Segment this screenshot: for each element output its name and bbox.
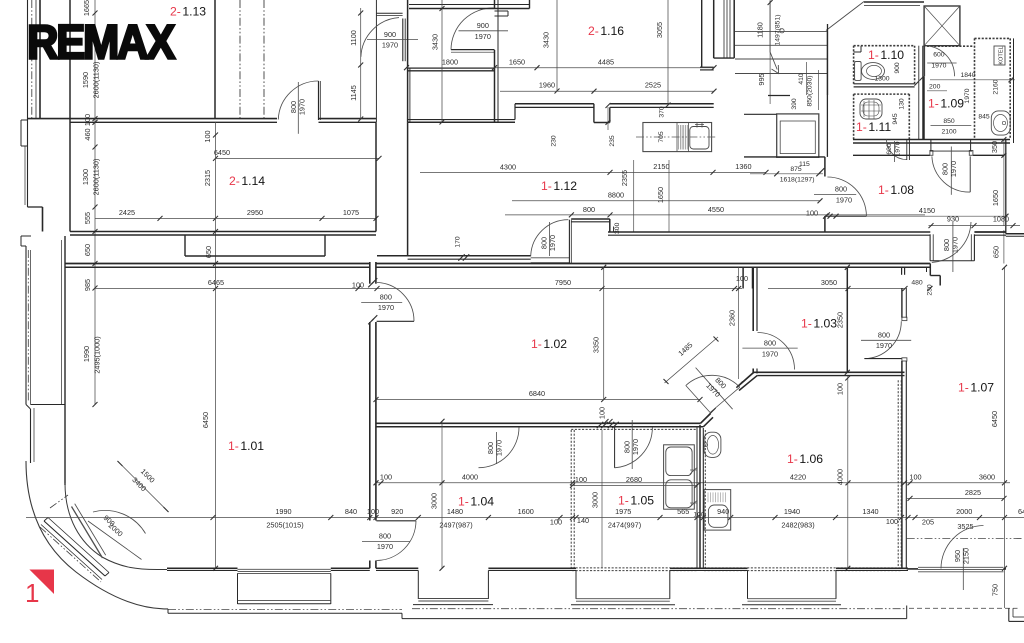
wall: diagonal 1.02/1.06: [701, 372, 758, 427]
svg-text:4150: 4150: [919, 206, 935, 215]
svg-text:2474(997): 2474(997): [608, 521, 641, 530]
svg-text:1: 1: [25, 578, 39, 608]
svg-text:6450: 6450: [201, 412, 210, 428]
label room 2-1.13: [170, 5, 206, 19]
svg-text:100: 100: [352, 281, 364, 290]
svg-text:390: 390: [791, 98, 798, 110]
wall: south main second line: [167, 570, 908, 572]
wall: 2-1.14 west: [69, 0, 71, 232]
dim labels x95 mid: [83, 114, 92, 141]
door D14 1.03 entry: [742, 333, 797, 370]
svg-text:6450: 6450: [214, 148, 230, 157]
axis dash-dot closet a: [239, 0, 241, 119]
svg-text:1650: 1650: [656, 187, 665, 203]
dim 2825: [906, 488, 1007, 501]
wall: 1.03 west: [753, 267, 757, 373]
svg-text:2497(987): 2497(987): [439, 521, 472, 530]
svg-text:2-1.13: 2-1.13: [170, 5, 206, 19]
door D16 1.04 ne: [479, 427, 520, 468]
dim line y482.8: [374, 480, 1011, 485]
svg-text:1665: 1665: [82, 0, 91, 16]
dims 3050 480 230: [768, 278, 934, 296]
wall: H3 band (top of 1.01/1.02/1.03): [65, 264, 930, 268]
svg-text:650: 650: [992, 246, 1001, 258]
wall: left jog mid: [21, 207, 43, 405]
svg-text:1970: 1970: [949, 161, 958, 177]
dim 3430 corridor: [431, 34, 440, 50]
bay axis dashdot: [40, 495, 101, 582]
svg-text:800: 800: [878, 330, 890, 339]
svg-text:3055: 3055: [655, 22, 664, 38]
wall dashed: 1.05 border: [571, 427, 697, 571]
dim line 2-1.16 verticals: [542, 0, 671, 108]
svg-text:460: 460: [83, 128, 92, 140]
elevator box: [744, 114, 819, 157]
dim 1800 1650 4485: [442, 57, 614, 66]
svg-text:1970: 1970: [298, 99, 307, 115]
svg-text:2100: 2100: [941, 129, 956, 136]
terrace dashed right: [909, 607, 1018, 609]
svg-text:6840: 6840: [529, 389, 545, 398]
svg-text:900: 900: [384, 30, 396, 39]
toilet 1.10: [855, 62, 885, 81]
door D8 1.08 ne: [930, 140, 972, 195]
svg-text:1-1.11: 1-1.11: [856, 120, 891, 134]
svg-text:1970: 1970: [964, 88, 971, 103]
bay door leaf: [72, 504, 106, 558]
wall: corridor y70: [408, 68, 495, 71]
wall: chimney x713-734: [702, 0, 735, 67]
svg-text:4550: 4550: [708, 205, 724, 214]
wall: D1 closet wall x376: [375, 0, 377, 122]
stair side wall: [826, 32, 828, 157]
bay door arc: [88, 510, 146, 559]
svg-text:705: 705: [658, 131, 665, 143]
wall: corridor x406: [408, 0, 410, 122]
dim line y485.4 (2680): [570, 475, 700, 488]
svg-text:140: 140: [577, 516, 589, 525]
svg-text:1-1.10: 1-1.10: [868, 48, 904, 62]
dim 3000b vert: [591, 430, 603, 568]
svg-text:7950: 7950: [555, 278, 571, 287]
wall: partition 1.10/1.11: [854, 84, 915, 94]
svg-text:100: 100: [83, 114, 92, 126]
wall: 2-1.16 south band A: [515, 104, 594, 120]
dim labels x95 low: [81, 159, 101, 291]
dims row y514 c: [781, 507, 1024, 531]
wall: 1.05/1.06 divider: [700, 425, 703, 568]
door D18 1.07 south: [941, 526, 984, 591]
wall dashed: 1.05 top inner: [0, 0, 1, 1]
svg-text:1-1.06: 1-1.06: [787, 452, 823, 466]
red numeral 1: [25, 578, 39, 608]
wall: 2-1.14 east: [375, 122, 377, 231]
dims 6465 100 7950 100b: [208, 274, 748, 290]
svg-text:800: 800: [380, 293, 392, 302]
svg-text:1180: 1180: [756, 22, 765, 38]
svg-text:2360: 2360: [727, 310, 736, 326]
svg-text:1-1.01: 1-1.01: [228, 439, 264, 453]
svg-text:2150: 2150: [961, 548, 970, 564]
wall dashed: room 1-1.10 border: [854, 46, 915, 84]
svg-text:230: 230: [927, 284, 934, 296]
svg-text:565: 565: [677, 507, 689, 516]
svg-text:1-1.04: 1-1.04: [458, 495, 494, 509]
svg-text:875: 875: [790, 166, 802, 173]
svg-text:3350: 3350: [592, 337, 601, 353]
wall dashed: room 1-1.09 border: [924, 38, 974, 139]
terrace outer edge right: [402, 606, 907, 619]
svg-text:650: 650: [83, 244, 92, 256]
svg-text:2825: 2825: [965, 488, 981, 497]
svg-text:2150: 2150: [653, 162, 669, 171]
svg-text:350: 350: [990, 141, 999, 153]
dim line y218.4: [95, 216, 379, 221]
dim 900 1300 in 1.10: [874, 62, 910, 82]
toilet 1.11 grid: [860, 99, 882, 119]
svg-text:555: 555: [83, 212, 92, 224]
label room 1-1.03: [801, 317, 837, 331]
diagonal dim 1485: [664, 337, 719, 385]
svg-text:1650: 1650: [991, 190, 1000, 206]
svg-text:900: 900: [894, 62, 901, 74]
svg-text:100: 100: [550, 518, 562, 527]
svg-text:850(2030): 850(2030): [807, 76, 814, 107]
kitchen axis: [636, 136, 717, 138]
svg-text:1360: 1360: [735, 162, 751, 171]
wall: H3 step right: [902, 264, 941, 286]
wall: hall south band y231 main: [375, 231, 377, 233]
door D4 1.07 entry: [861, 317, 911, 361]
svg-text:1497(851): 1497(851): [775, 15, 782, 46]
svg-text:1970: 1970: [894, 141, 901, 156]
door D10 1.12-1.01: [361, 278, 414, 324]
dim 1497(851) stairs: [770, 0, 781, 104]
svg-text:REMAX: REMAX: [27, 17, 175, 70]
svg-text:4000: 4000: [836, 469, 845, 485]
svg-text:750: 750: [991, 584, 1000, 596]
dim line vertical x442: [440, 0, 445, 125]
svg-text:170: 170: [455, 236, 462, 248]
dim 900/1970 door D1: [367, 30, 418, 50]
wall: protrusion below 2-1.14: [185, 235, 325, 256]
axis dash-dot window left: [27, 250, 29, 402]
wall: return y255.8: [377, 236, 531, 261]
wall: H4 band: [376, 423, 703, 427]
svg-text:1960: 1960: [539, 81, 555, 90]
svg-text:1970: 1970: [631, 439, 640, 455]
label room 1-1.06: [787, 452, 823, 466]
svg-text:100: 100: [806, 209, 818, 218]
svg-text:410: 410: [798, 73, 805, 85]
svg-text:1970: 1970: [475, 32, 491, 41]
terrace outer edge left: [168, 609, 402, 619]
dims row y514 b: [518, 507, 730, 529]
washbasin 1.06: [704, 432, 721, 457]
svg-text:4300: 4300: [500, 163, 516, 172]
wall: right outer: [1006, 139, 1024, 236]
svg-text:6465: 6465: [208, 278, 224, 287]
wall: stair landing south: [768, 24, 828, 96]
door D3 corridor-to-2-1.14: [278, 81, 320, 134]
dim line y91: [500, 81, 717, 94]
dims row y514: [266, 507, 472, 529]
svg-text:2160: 2160: [993, 79, 1000, 94]
svg-text:2315: 2315: [203, 170, 212, 186]
corner walls bottom right: [1009, 608, 1024, 621]
dim 930 1080 row: [929, 215, 1021, 229]
svg-text:1970: 1970: [876, 341, 892, 350]
label room 1-1.01: [228, 439, 264, 453]
svg-text:100: 100: [380, 473, 392, 482]
svg-text:1-1.12: 1-1.12: [541, 179, 577, 193]
wall: wc block south: [853, 140, 1010, 144]
svg-text:1480: 1480: [447, 507, 463, 516]
svg-text:1970: 1970: [495, 440, 504, 456]
stair treads: [735, 32, 827, 74]
svg-text:1970: 1970: [836, 195, 852, 204]
label room 1-1.04: [458, 495, 494, 509]
dims in 1.09: [927, 72, 1015, 136]
dim line vertical x95: [93, 0, 98, 291]
svg-text:1340: 1340: [862, 507, 878, 516]
stair tick: [768, 0, 773, 5]
svg-text:1840: 1840: [960, 72, 975, 79]
door D9 1.08 south: [930, 222, 974, 272]
svg-text:2525: 2525: [645, 81, 661, 90]
svg-text:370: 370: [659, 106, 666, 118]
bathtub KOTEL: [991, 111, 1010, 135]
shaft box: [924, 6, 960, 46]
svg-text:1970: 1970: [378, 303, 394, 312]
svg-text:100: 100: [736, 274, 748, 283]
svg-text:3430: 3430: [542, 32, 551, 48]
axis dash-dot closet b: [263, 0, 265, 119]
svg-text:1618(1297): 1618(1297): [780, 177, 815, 184]
door D11 threshold: [531, 258, 570, 263]
axis dash-dot left wall: [31, 0, 33, 118]
dim 1650 650 right: [991, 137, 1006, 264]
dim 2355: [620, 160, 634, 232]
dim 3000a vert: [430, 419, 445, 571]
wall: corridor south y122 east part: [408, 120, 515, 123]
svg-text:2495(1000): 2495(1000): [93, 336, 102, 373]
window 1.07 south: [918, 567, 1004, 572]
dim line y67.7: [404, 65, 717, 70]
kitchen counter hall: [643, 123, 712, 152]
svg-text:130: 130: [899, 98, 906, 110]
svg-text:480: 480: [911, 280, 923, 287]
svg-text:800: 800: [835, 185, 847, 194]
door D17 1.01-1.04: [362, 521, 416, 561]
wall: landing south y157: [744, 156, 825, 158]
dim 410/850 landing: [791, 62, 819, 110]
svg-text:845: 845: [978, 114, 990, 121]
dim 945 130 in 1.11: [892, 98, 906, 125]
door D6 1.11 entry: [886, 139, 909, 162]
svg-text:1100: 1100: [349, 30, 358, 46]
svg-text:2355: 2355: [620, 170, 629, 186]
svg-text:1-1.07: 1-1.07: [958, 381, 994, 395]
kitchen sink hall: [690, 123, 709, 150]
svg-text:64: 64: [1018, 507, 1024, 516]
svg-text:2425: 2425: [119, 208, 135, 217]
svg-text:800: 800: [764, 339, 776, 348]
svg-text:1975: 1975: [615, 507, 631, 516]
KOTEL label box: [994, 46, 1005, 65]
svg-text:2600(1130): 2600(1130): [92, 159, 101, 196]
svg-text:1300: 1300: [81, 169, 90, 185]
wall: 1-1.01 west window wall: [26, 236, 65, 485]
svg-text:600: 600: [886, 143, 893, 155]
wall dashed: room 1-1.11 border: [854, 94, 910, 139]
REMAX logo: [27, 17, 175, 70]
label room 1-1.02: [531, 337, 567, 351]
dims 2150 1360: [500, 162, 752, 172]
dim 350 right: [990, 141, 999, 153]
label room 1-1.07: [958, 381, 994, 395]
dim 1100 1145: [349, 30, 358, 101]
svg-text:2680: 2680: [626, 475, 642, 484]
svg-text:1-1.08: 1-1.08: [878, 183, 914, 197]
svg-text:3430: 3430: [431, 34, 440, 50]
bay window diagonal: [41, 518, 109, 580]
dashdot 1.07 terrace: [907, 538, 1023, 540]
door D11 arc leaf: [531, 220, 572, 264]
wall: 2-1.16 north: [409, 0, 530, 9]
stair cut diagonal: [826, 2, 864, 31]
label room 1-1.09: [928, 97, 964, 111]
dims 875 115 1618: [750, 161, 824, 184]
wall: 2-1.13 east wall: [214, 0, 216, 119]
svg-text:1970: 1970: [931, 63, 946, 70]
dim 6840 line: [374, 389, 703, 402]
wall: niche band y68 x700: [700, 67, 714, 70]
dim line 6450 y158: [213, 148, 382, 161]
door D5 1.09 entry: [925, 46, 957, 76]
dim line x213: [212, 264, 214, 569]
window bay3 1.05: [571, 571, 675, 605]
svg-text:850: 850: [943, 118, 955, 125]
svg-text:1600: 1600: [518, 507, 534, 516]
stove 1.06: [704, 490, 731, 530]
svg-text:205: 205: [922, 518, 934, 527]
wall: 1.12 step wall y218: [571, 219, 613, 232]
svg-text:1970: 1970: [382, 40, 398, 49]
dim line y172: [420, 170, 769, 175]
dim labels x95 top: [81, 0, 101, 98]
dims y479 row: [380, 473, 995, 482]
svg-text:100: 100: [203, 130, 212, 142]
wall: H2 band right segment: [974, 232, 1006, 235]
svg-text:1-1.09: 1-1.09: [928, 97, 964, 111]
svg-text:1650: 1650: [509, 57, 525, 66]
svg-text:1800: 1800: [442, 57, 458, 66]
svg-text:840: 840: [345, 507, 357, 516]
svg-text:1990: 1990: [275, 507, 291, 516]
red triangle mark: [29, 570, 54, 595]
door D2 leaf+arc: [451, 8, 508, 52]
terrace dashdot left: [168, 609, 402, 611]
svg-text:4485: 4485: [598, 57, 614, 66]
door D13 on diagonal: [686, 368, 743, 415]
svg-text:920: 920: [391, 507, 403, 516]
svg-text:985: 985: [83, 279, 92, 291]
wall dashed: 1.06 border: [704, 380, 901, 570]
svg-text:4220: 4220: [790, 473, 806, 482]
dim line y287 (6465/7950/100): [95, 286, 742, 291]
svg-text:1-1.03: 1-1.03: [801, 317, 837, 331]
terrace dashdot mid: [412, 608, 906, 610]
wall: 1.08 west: [824, 157, 826, 232]
dim 2360 vert: [727, 267, 741, 379]
svg-text:230: 230: [551, 135, 558, 147]
dim 4000 vert 1.06: [836, 376, 851, 571]
dim 4150 row: [830, 206, 1009, 219]
svg-text:200: 200: [929, 84, 941, 91]
wall: south main (H5): [167, 567, 1006, 570]
wall: lintel x494-508: [495, 11, 509, 16]
dim 100 under: [598, 407, 613, 424]
svg-text:1970: 1970: [950, 237, 959, 253]
svg-text:1970: 1970: [377, 542, 393, 551]
svg-text:600: 600: [933, 51, 945, 58]
svg-text:2482(983): 2482(983): [781, 521, 814, 530]
svg-text:800: 800: [379, 532, 391, 541]
svg-text:2000: 2000: [956, 507, 972, 516]
sink 1.05 double: [664, 445, 698, 509]
svg-text:4000: 4000: [462, 473, 478, 482]
dim line vertical x215: [213, 122, 218, 571]
stair arrow: [770, 1, 784, 74]
svg-text:100: 100: [909, 473, 921, 482]
svg-text:3000: 3000: [591, 492, 600, 508]
window bay4 1.06: [742, 571, 841, 605]
wall: corridor north band (H1): [28, 119, 376, 123]
svg-text:1300: 1300: [874, 75, 889, 82]
wall: 2-1.14 south band: [70, 232, 376, 236]
window bay1 1.01: [238, 569, 331, 604]
dims kitchenette: [551, 103, 666, 147]
svg-text:995: 995: [757, 73, 766, 85]
svg-text:1075: 1075: [343, 208, 359, 217]
svg-text:KOTEL: KOTEL: [999, 46, 1005, 64]
wall: 1.03/1.06 south band: [754, 372, 905, 375]
svg-text:100: 100: [367, 507, 379, 516]
svg-text:2505(1015): 2505(1015): [266, 521, 303, 530]
label room 1-1.08: [878, 183, 914, 197]
dim 1180 995 right: [756, 22, 767, 85]
door D7 1.08 entry: [814, 177, 866, 216]
dim 6450 right: [990, 265, 1007, 608]
dim 1990/2495 left: [82, 289, 102, 408]
svg-text:3000: 3000: [430, 493, 439, 509]
bay curve outer: [26, 461, 168, 609]
svg-text:100: 100: [886, 517, 898, 526]
wall: corridor east x407 lower: [407, 122, 409, 256]
dim line vertical x360: [358, 8, 363, 122]
svg-text:2950: 2950: [247, 208, 263, 217]
svg-text:2-1.16: 2-1.16: [588, 24, 624, 38]
dim 1650 vert: [656, 160, 669, 232]
wall: 2-1.16 west wall x494: [495, 0, 499, 122]
label room 1-1.11: [856, 120, 891, 134]
svg-text:945: 945: [892, 113, 899, 125]
svg-text:1940: 1940: [784, 507, 800, 516]
dim 2315 100: [201, 130, 213, 428]
hatch opening 100: [597, 422, 619, 428]
bay curve inner: [65, 483, 167, 570]
